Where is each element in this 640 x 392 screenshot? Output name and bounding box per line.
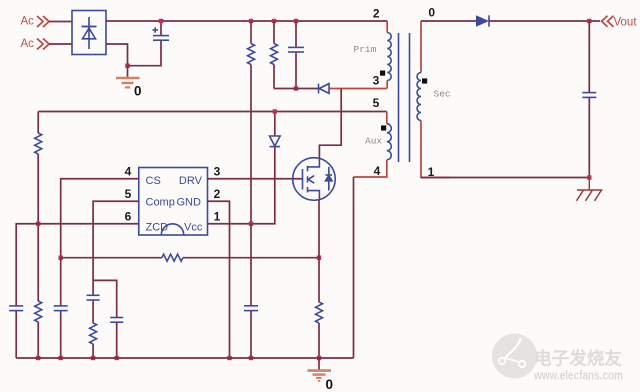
node junction snubber cap on rail bbox=[294, 19, 298, 23]
wire secondary pin 0 to output diode bbox=[421, 20, 476, 22]
svg-text:Aux: Aux bbox=[365, 136, 382, 147]
node junction divider on ground rail bbox=[36, 356, 40, 360]
svg-text:2: 2 bbox=[214, 187, 221, 201]
svg-text:CS: CS bbox=[146, 175, 161, 187]
wire sense resistor to ground rail bbox=[318, 323, 320, 358]
transformer core bbox=[399, 33, 410, 162]
svg-text:ZCD: ZCD bbox=[146, 221, 169, 233]
transformer secondary pin 1 stub bbox=[421, 121, 450, 178]
svg-text:6: 6 bbox=[125, 209, 132, 223]
IC U1 body bbox=[139, 168, 208, 236]
transformer primary pin 2 stub bbox=[386, 21, 388, 33]
svg-text:GND: GND bbox=[177, 196, 202, 208]
ground 0 (input) bbox=[127, 66, 129, 77]
wire clamp node horizontal bbox=[274, 88, 319, 90]
ground 0 (primary) bbox=[318, 358, 320, 370]
wire aux rail (pin 5 net) bbox=[38, 111, 387, 113]
watermark logo circle bbox=[492, 334, 537, 379]
resistor R-snubber bbox=[273, 21, 275, 44]
diode D-output bbox=[476, 15, 489, 26]
MOSFET Q1 substrate arrow bbox=[308, 176, 314, 184]
wire CS node to sense resistor bbox=[61, 257, 162, 259]
node junction snubber resistor on rail bbox=[272, 19, 276, 23]
svg-text:2: 2 bbox=[373, 6, 380, 20]
bridge rectifier D1 internal diode bbox=[82, 17, 97, 49]
transformer secondary pin 0 stub bbox=[420, 21, 422, 73]
svg-text:电子发烧友: 电子发烧友 bbox=[534, 349, 623, 369]
node junction CS filter node bbox=[59, 256, 63, 260]
port Ac (top) chevron bbox=[37, 16, 43, 27]
svg-text:4: 4 bbox=[125, 164, 132, 178]
wire comp parallel branch bbox=[93, 280, 117, 317]
wire sense resistor to source node bbox=[183, 257, 319, 259]
MOSFET Q1 body circle bbox=[293, 158, 336, 201]
node junction ZCD tap bbox=[36, 222, 40, 226]
bridge rectifier D1 body bbox=[72, 11, 106, 55]
capacitor C-bulk bbox=[160, 21, 162, 35]
node junction source sense node bbox=[317, 256, 321, 260]
node junction GND on ground rail bbox=[227, 356, 231, 360]
capacitor C-cs filter bbox=[60, 258, 62, 306]
svg-text:Ac: Ac bbox=[21, 16, 35, 28]
wire bridge negative to node 0 bbox=[106, 44, 128, 66]
wire ZCD pin 6 bbox=[16, 224, 139, 306]
node junction Vcc cap on ground rail bbox=[249, 356, 253, 360]
wire snubber resistor to clamp node bbox=[273, 65, 275, 89]
transformer secondary winding Sec bbox=[417, 73, 421, 121]
capacitor C-output bbox=[588, 21, 590, 92]
wire lower divider to ground rail bbox=[37, 322, 39, 358]
resistor R-sense bbox=[316, 302, 323, 323]
wire sense node to sense resistor bbox=[318, 258, 320, 302]
wire clamp diode anode to primary pin 3 bbox=[329, 88, 387, 90]
node junction aux diode on aux rail bbox=[273, 109, 277, 113]
transformer primary winding Prim bbox=[387, 33, 391, 81]
primary polarity dot bbox=[380, 71, 385, 76]
svg-text:DRV: DRV bbox=[179, 175, 203, 187]
resistor R-startup bbox=[250, 21, 252, 44]
wire primary ground rail bbox=[16, 357, 353, 359]
wire Vcc pin 1 bbox=[208, 147, 275, 224]
node junction snubber cap bottom bbox=[294, 86, 298, 90]
svg-text:Vout: Vout bbox=[614, 17, 638, 29]
wire DRV pin 3 to MOSFET gate bbox=[208, 178, 303, 180]
svg-text:5: 5 bbox=[373, 96, 380, 110]
capacitor C-vcc bbox=[250, 224, 252, 305]
wire Ac bottom to bridge bbox=[49, 43, 72, 45]
node junction secondary return at ground bbox=[587, 175, 591, 179]
capacitor C-comp2 (parallel) bbox=[110, 318, 123, 323]
svg-text:5: 5 bbox=[125, 187, 132, 201]
svg-text:0: 0 bbox=[326, 377, 334, 392]
capacitor C-zcd filter bbox=[9, 306, 23, 311]
wire Comp pin 5 bbox=[93, 201, 139, 295]
diode D-vcc (aux rectifier) bbox=[274, 112, 276, 137]
capacitor C-snubber bbox=[295, 21, 297, 47]
node junction CS cap on ground rail bbox=[59, 356, 63, 360]
wire drain tee to clamp/pin3 net bbox=[319, 89, 341, 159]
node junction startup resistor on Vcc bbox=[249, 222, 253, 226]
svg-text:www.elecfans.com: www.elecfans.com bbox=[533, 368, 623, 383]
svg-text:3: 3 bbox=[373, 74, 380, 88]
svg-text:Comp: Comp bbox=[146, 196, 175, 208]
port Ac (bottom) chevron bbox=[37, 39, 43, 50]
transformer primary pin 3 stub bbox=[386, 81, 388, 89]
svg-text:1: 1 bbox=[214, 209, 221, 223]
IC U1 notch arc bbox=[161, 224, 183, 235]
wire output diode to Vout bbox=[489, 20, 600, 22]
secondary polarity dot bbox=[422, 78, 427, 83]
capacitor C-comp (series) bbox=[87, 295, 100, 300]
MOSFET Q1 source link bbox=[308, 191, 320, 200]
wire secondary return rail bbox=[421, 177, 589, 179]
wire startup resistor to Vcc node bbox=[250, 65, 252, 224]
svg-text:Ac: Ac bbox=[21, 38, 35, 50]
resistor R-zcd-upper (aux divider) bbox=[37, 112, 39, 134]
wire GND pin 2 to ground rail bbox=[208, 201, 230, 358]
node junction comp cap2 on ground rail bbox=[115, 356, 119, 360]
wire bridge output to top rail bbox=[106, 20, 387, 22]
node junction startup resistor on rail bbox=[249, 19, 253, 23]
MOSFET Q1 drain link bbox=[308, 158, 320, 167]
wire aux return to ground rail bbox=[353, 177, 355, 358]
transformer aux pin 4 stub bbox=[354, 160, 387, 177]
wire ZCD cap to ground rail bbox=[15, 311, 17, 358]
MOSFET Q1 body diode bbox=[326, 167, 333, 191]
svg-text:4: 4 bbox=[374, 164, 381, 178]
svg-text:Sec: Sec bbox=[434, 89, 451, 100]
svg-text:3: 3 bbox=[214, 164, 221, 178]
wire Ac top to bridge bbox=[49, 21, 72, 23]
resistor R-comp (series) bbox=[90, 323, 97, 344]
resistor R-zcd-lower bbox=[35, 301, 42, 322]
wire node to bulk cap bottom bbox=[128, 41, 162, 66]
svg-text:0: 0 bbox=[428, 6, 435, 20]
MOSFET Q1 gate bar bbox=[302, 169, 304, 190]
diode D-clamp bbox=[319, 84, 330, 94]
svg-text:Prim: Prim bbox=[354, 44, 377, 55]
aux polarity dot bbox=[381, 125, 386, 130]
resistor R-cs (horizontal) bbox=[162, 254, 183, 261]
node junction comp RC on ground rail bbox=[91, 356, 95, 360]
MOSFET Q1 channel dashes bbox=[307, 166, 309, 193]
svg-text:Vcc: Vcc bbox=[184, 221, 203, 233]
port Vout chevron bbox=[602, 16, 608, 27]
node junction sense resistor on ground rail bbox=[317, 356, 321, 360]
svg-text:0: 0 bbox=[134, 84, 142, 99]
node junction at bridge return bbox=[125, 64, 129, 68]
capacitor C-bulk plus mark bbox=[153, 27, 159, 32]
wire MOSFET source to sense node bbox=[318, 200, 320, 258]
transformer aux winding Aux bbox=[387, 124, 392, 160]
wire CS pin 4 bbox=[61, 179, 139, 258]
transformer aux pin 5 stub bbox=[386, 112, 388, 124]
wire divider to ZCD node bbox=[37, 154, 39, 301]
node junction output cap on Vout rail bbox=[587, 19, 591, 23]
node junction bulk cap on rail bbox=[159, 19, 163, 23]
ground (secondary side) bbox=[577, 178, 603, 201]
